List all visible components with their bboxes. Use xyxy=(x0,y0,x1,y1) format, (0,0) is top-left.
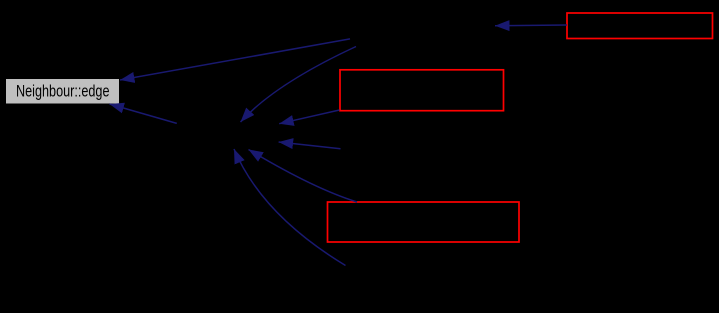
edge arrow E5: box R2 to hidden central node xyxy=(279,110,339,124)
edge arrow E1: box R1 to hidden top node xyxy=(495,24,567,27)
caller node box R3 (bottom, red border) xyxy=(328,202,520,242)
node Neighbour::edge (current node, grey) xyxy=(6,79,120,105)
edge arrow E7: box R3 to hidden central node xyxy=(249,150,358,203)
edge arrow E6: hidden right node to hidden central node xyxy=(279,142,341,149)
svg-text:Neighbour::edge: Neighbour::edge xyxy=(16,82,110,101)
edge arrow E4: hidden central node to Neighbour::edge xyxy=(110,104,177,123)
caller node box R2 (middle, red border) xyxy=(340,70,504,111)
caller node box R1 (top right, red border) xyxy=(567,13,713,39)
edge arrow E3: hidden top node to hidden central node xyxy=(241,47,357,123)
edge arrow E2: hidden top node to Neighbour::edge xyxy=(120,39,350,80)
edge arrow E8: hidden bottom node to hidden central node xyxy=(234,149,346,266)
